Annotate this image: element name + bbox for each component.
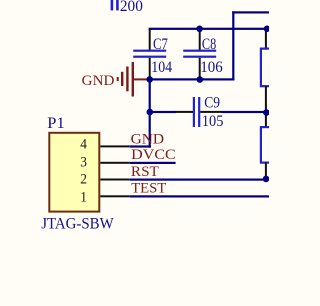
svg-text:C8: C8 — [202, 36, 216, 53]
svg-text:GND: GND — [131, 131, 165, 147]
pin 2 lead — [100, 179, 130, 181]
wire C9 left to GND drop — [149, 111, 176, 113]
capacitor C9 — [176, 97, 223, 127]
junction GND/C7 bottom — [146, 76, 153, 83]
svg-text:DVCC: DVCC — [131, 147, 176, 163]
wire upper-right rail y=12.4 — [232, 11, 269, 13]
capacitor C6 (partial, cut at top edge) — [111, 0, 119, 10]
wire DVCC net — [130, 162, 176, 164]
connector P1 body — [49, 133, 99, 212]
svg-text:4: 4 — [80, 136, 87, 152]
power port GND (symbol) — [117, 62, 149, 97]
junction C9 right / resistors — [263, 109, 270, 116]
svg-text:TEST: TEST — [131, 181, 166, 197]
junction at resistor top — [264, 26, 271, 33]
wire RST net — [130, 179, 266, 181]
wire VCC top rail y=28.7 — [149, 28, 269, 30]
svg-text:3: 3 — [80, 155, 87, 171]
svg-text:106: 106 — [200, 59, 223, 76]
svg-text:RST: RST — [131, 164, 159, 180]
junction RST / resistor bottom — [263, 176, 270, 183]
svg-text:GND: GND — [82, 73, 115, 89]
svg-text:104: 104 — [151, 59, 172, 76]
pin 3 lead — [100, 162, 130, 164]
wire GND mid rail y=79.4 — [149, 78, 235, 80]
wire riser x=233.3 — [232, 11, 234, 80]
junction C8 bottom — [197, 76, 204, 83]
svg-text:JTAG-SBW: JTAG-SBW — [41, 215, 114, 232]
wire GND net — [130, 145, 151, 147]
wire TEST net — [130, 195, 269, 197]
svg-text:1: 1 — [80, 190, 87, 206]
svg-text:C7: C7 — [153, 36, 168, 53]
resistor R? top (partial at right edge) — [261, 29, 273, 113]
pin 1 lead — [100, 195, 130, 197]
wire vertical GND drop x=149.7 — [149, 79, 151, 147]
svg-text:P1: P1 — [47, 115, 64, 132]
pin 4 lead — [100, 145, 130, 147]
capacitor C8 — [183, 29, 216, 79]
resistor R? bottom (partial at right edge) — [261, 113, 273, 179]
svg-text:200: 200 — [120, 0, 143, 15]
wire C9 right to resistor column — [222, 111, 267, 113]
svg-text:105: 105 — [202, 113, 224, 130]
junction C9 left — [147, 109, 154, 116]
svg-text:2: 2 — [80, 171, 87, 187]
capacitor C7 — [133, 29, 166, 79]
junction at C8 top — [196, 26, 203, 33]
svg-text:C9: C9 — [204, 95, 220, 112]
